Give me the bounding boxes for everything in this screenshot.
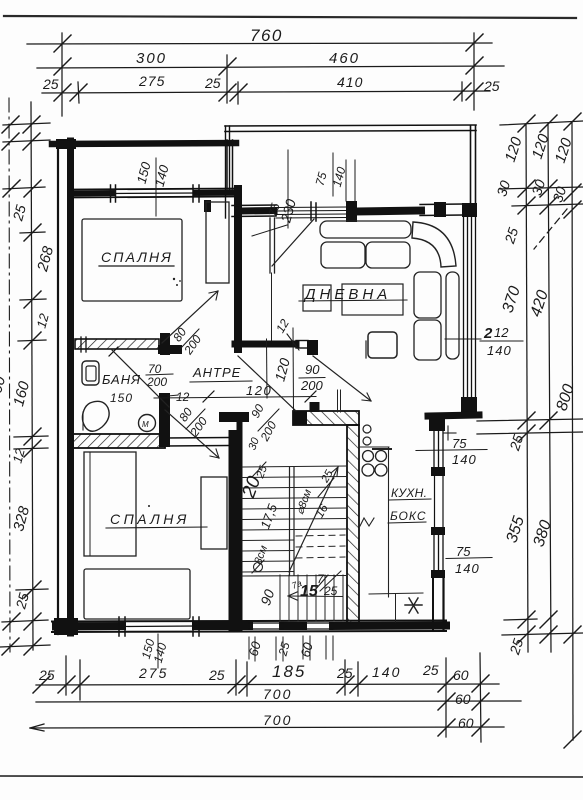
svg-text:60: 60 — [455, 691, 471, 707]
symbol near kitchen — [360, 518, 374, 526]
bedroom2 bottom window mid line — [122, 625, 196, 628]
bathroom door-side stub black — [160, 333, 170, 355]
sofa corner piece — [412, 222, 456, 267]
svg-text:90: 90 — [305, 362, 320, 377]
pier between W1 and door — [431, 467, 445, 476]
svg-text:460: 460 — [329, 50, 360, 67]
bedroom1 door arrow — [162, 291, 218, 343]
terrace top double line — [225, 125, 476, 126]
75/230 left terrace — [287, 150, 289, 228]
dim row 1 — [36, 684, 499, 685]
top border line — [4, 16, 576, 18]
top-right corner pier — [462, 203, 477, 217]
kitchen right inset wall: top pier — [429, 413, 445, 431]
stair labels rotated — [238, 435, 338, 607]
left chain vertical — [31, 102, 33, 650]
diameter 8 symbol — [254, 563, 263, 572]
dim line 25/275/25/410/25 — [42, 91, 490, 93]
asterisk mark — [405, 598, 422, 613]
svg-text:700: 700 — [263, 712, 292, 728]
WALLS — [52, 125, 479, 636]
hall-living door stub — [269, 218, 271, 273]
svg-text:700: 700 — [263, 686, 292, 702]
extension rows right — [500, 121, 583, 125]
living room right wall window verticals — [463, 217, 465, 397]
window label 212/140 right — [445, 325, 523, 358]
walking line — [289, 467, 338, 572]
75/140 terrace door — [332, 153, 334, 196]
right tick slashes — [518, 115, 535, 132]
bottom wall outer and inner lines — [52, 621, 446, 622]
svg-text:140: 140 — [455, 561, 480, 576]
line under 120 — [154, 397, 316, 399]
svg-text:60: 60 — [453, 667, 469, 683]
dashes lower — [369, 593, 423, 594]
hall label — [190, 365, 252, 382]
svg-text:200: 200 — [300, 378, 323, 393]
TOP DIMENSIONS — [27, 33, 504, 116]
dim line 300/460 — [37, 66, 504, 68]
DOORS AND SWINGS — [112, 218, 371, 458]
landing line — [242, 575, 347, 578]
small t-mark — [447, 426, 449, 440]
hall-living glazed opening sill lines — [276, 206, 347, 209]
living room top wall thin part — [420, 203, 463, 206]
bedroom1 window end ticks — [110, 185, 112, 202]
svg-text:300: 300 — [136, 50, 167, 67]
FURNITURE AND LABELS — [82, 202, 459, 360]
bathroom door leaf — [112, 350, 169, 407]
bottom opening B thin lines — [303, 622, 333, 624]
svg-text:75: 75 — [456, 544, 471, 559]
living room top wall pier A — [346, 201, 357, 222]
svg-text:410: 410 — [337, 74, 363, 90]
right sofa back — [446, 272, 459, 359]
pier between door and W2 — [431, 527, 445, 535]
thin wall bathroom to bedroom2 right wall — [165, 437, 229, 440]
bedroom2 label — [106, 505, 207, 528]
opening tick marks — [310, 202, 312, 220]
bedroom1 window mid line — [112, 192, 196, 195]
HATCHED WALLS — [73, 333, 359, 623]
counter lines — [359, 446, 389, 448]
svg-text:12: 12 — [494, 325, 509, 340]
bathroom top hatched wall — [75, 339, 159, 349]
verticals bottom — [65, 656, 67, 695]
kitchen labels — [388, 486, 431, 523]
svg-text:140: 140 — [372, 664, 401, 680]
svg-text:275: 275 — [138, 73, 165, 89]
leader pair right of stairs — [337, 390, 339, 412]
bed horizontal — [84, 569, 190, 619]
KITCHEN — [338, 390, 457, 622]
label 70/200 — [146, 362, 173, 389]
hall bottom wall to stairs — [235, 341, 296, 348]
svg-text:КУХН.: КУХН. — [391, 486, 427, 500]
svg-text:25: 25 — [42, 76, 59, 92]
toilet — [82, 401, 109, 431]
svg-text:12: 12 — [176, 390, 190, 404]
hall-kitchen door pier top — [307, 340, 318, 355]
svg-text:25: 25 — [422, 662, 439, 678]
svg-text:75: 75 — [452, 436, 467, 451]
svg-text:150: 150 — [110, 391, 133, 405]
stairwell right hatched wall — [347, 425, 359, 623]
stair treads — [242, 466, 347, 467]
bottom tick slashes — [33, 676, 50, 693]
stairwell left wall upper stub — [237, 415, 243, 430]
hall-kitchen door leaf with arrow — [313, 356, 371, 401]
rotated 120 with leader — [292, 328, 295, 411]
bedroom1 top wall — [52, 143, 236, 144]
stair top stub wall — [219, 412, 249, 422]
dashed upper flight — [296, 535, 345, 536]
BOTTOM DIMENSIONS — [30, 653, 521, 742]
BEDROOM2 — [84, 452, 227, 619]
svg-text:60: 60 — [458, 715, 474, 731]
dim row 3 with arrow — [30, 727, 504, 728]
right sofa cushions — [414, 272, 441, 318]
svg-text:120: 120 — [246, 383, 272, 398]
connector double vertical above bedroom right wall — [226, 140, 228, 189]
sofa back top — [320, 221, 411, 238]
kitchen door thin double — [434, 476, 436, 527]
svg-text:БАНЯ: БАНЯ — [102, 372, 141, 387]
bedroom1 right wall — [234, 189, 242, 349]
hall-stairs door leaf — [238, 356, 296, 411]
bedroom1 dots — [173, 278, 175, 280]
svg-text:25: 25 — [208, 667, 225, 683]
bathroom bottom hatched wall — [73, 434, 165, 448]
svg-text:СПАЛНЯ: СПАЛНЯ — [101, 249, 173, 265]
dim line 760 — [27, 43, 492, 44]
bottom border line — [0, 776, 583, 777]
svg-text:760: 760 — [250, 26, 283, 45]
hall top wall — [232, 204, 276, 207]
svg-text:М: М — [142, 420, 149, 429]
bedroom1 closet — [206, 202, 229, 283]
bottom-left corner pier — [54, 618, 78, 635]
svg-text:СПАЛНЯ: СПАЛНЯ — [110, 511, 190, 527]
svg-text:ДНЕВНА: ДНЕВНА — [303, 286, 391, 303]
pier below W2 — [431, 570, 445, 578]
kitchen top wall — [428, 415, 479, 416]
bathroom right wall black — [159, 393, 170, 447]
kitchen right wall lower — [432, 578, 434, 630]
HALL DIMENSION MARKS — [154, 316, 325, 444]
hall door arrow down — [165, 410, 219, 458]
kitchen window W2 — [433, 535, 435, 570]
left dash-dot margin line — [9, 98, 10, 652]
lower flight treads vertical — [279, 575, 281, 621]
bed vertical — [84, 452, 136, 556]
svg-text:140: 140 — [452, 452, 477, 467]
left outer wall thin line — [57, 141, 59, 634]
svg-text:25: 25 — [336, 665, 353, 681]
svg-text:2: 2 — [483, 325, 493, 342]
WINDOW LABELS TOP — [134, 150, 355, 236]
right wall lower pier — [461, 397, 477, 413]
stairwell top hatched wall — [293, 411, 359, 425]
dim row 2 — [36, 701, 521, 702]
BATHROOM — [82, 361, 156, 432]
wall stub near closet — [204, 200, 211, 212]
svg-text:25: 25 — [483, 78, 500, 94]
svg-text:АНТРЕ: АНТРЕ — [192, 365, 241, 380]
closet — [201, 477, 227, 549]
bottom wall thick segments — [56, 622, 122, 631]
top-left corner pier — [56, 139, 76, 149]
dashed diagonal — [534, 209, 567, 249]
sink bowls — [363, 451, 374, 462]
lower flight walking line with arrow — [288, 595, 342, 598]
extension verticals — [61, 33, 63, 116]
svg-text:25: 25 — [323, 584, 338, 598]
washing machine — [139, 415, 156, 432]
stove small burners — [363, 425, 371, 433]
svg-text:185: 185 — [272, 662, 306, 681]
75/140 kitchen window labels — [416, 436, 492, 576]
RIGHT DIMENSIONS — [477, 121, 583, 740]
bedroom1 bed — [82, 219, 182, 301]
bedroom1 label — [99, 249, 174, 266]
svg-text:140: 140 — [487, 343, 512, 358]
terrace left double vertical — [225, 126, 227, 218]
bedroom2 window ticks — [118, 617, 120, 636]
left tick slashes — [23, 116, 40, 133]
ticks at hatched wall left end — [80, 337, 82, 352]
bedroom2 right wall thick band — [229, 430, 243, 631]
svg-text:25: 25 — [204, 75, 221, 91]
table — [368, 332, 397, 358]
sofa cushions top — [321, 242, 365, 268]
hall-kitchen door pier bottom — [310, 402, 320, 412]
svg-text:275: 275 — [138, 665, 168, 681]
fraction bar for 150/140 bottom — [157, 634, 159, 668]
window tick verticals below bottom wall — [248, 637, 250, 659]
hall-living door leaf — [272, 219, 314, 266]
label 12 door — [168, 390, 190, 404]
STAIRS — [242, 466, 347, 621]
sink — [82, 361, 99, 385]
dnevna label boxes — [303, 285, 331, 311]
tick slashes top — [54, 35, 71, 52]
svg-text:25: 25 — [38, 667, 55, 683]
150/140 bedroom1 window — [155, 158, 157, 216]
bedroom1 top interior wall band — [72, 189, 236, 190]
bottom opening A thin lines — [249, 622, 283, 624]
center stringer — [289, 467, 291, 575]
right chain verticals — [526, 124, 528, 652]
LEFT DIMENSIONS — [0, 102, 50, 650]
svg-text:70: 70 — [148, 362, 162, 376]
living room top wall pier B — [434, 202, 446, 217]
extension rows — [3, 123, 50, 125]
kitchen window W1 — [433, 431, 435, 467]
terrace right double vertical — [470, 126, 472, 205]
living room top wall thick — [357, 211, 421, 212]
left wall thick — [67, 141, 74, 633]
svg-text:БОКС: БОКС — [390, 509, 426, 523]
